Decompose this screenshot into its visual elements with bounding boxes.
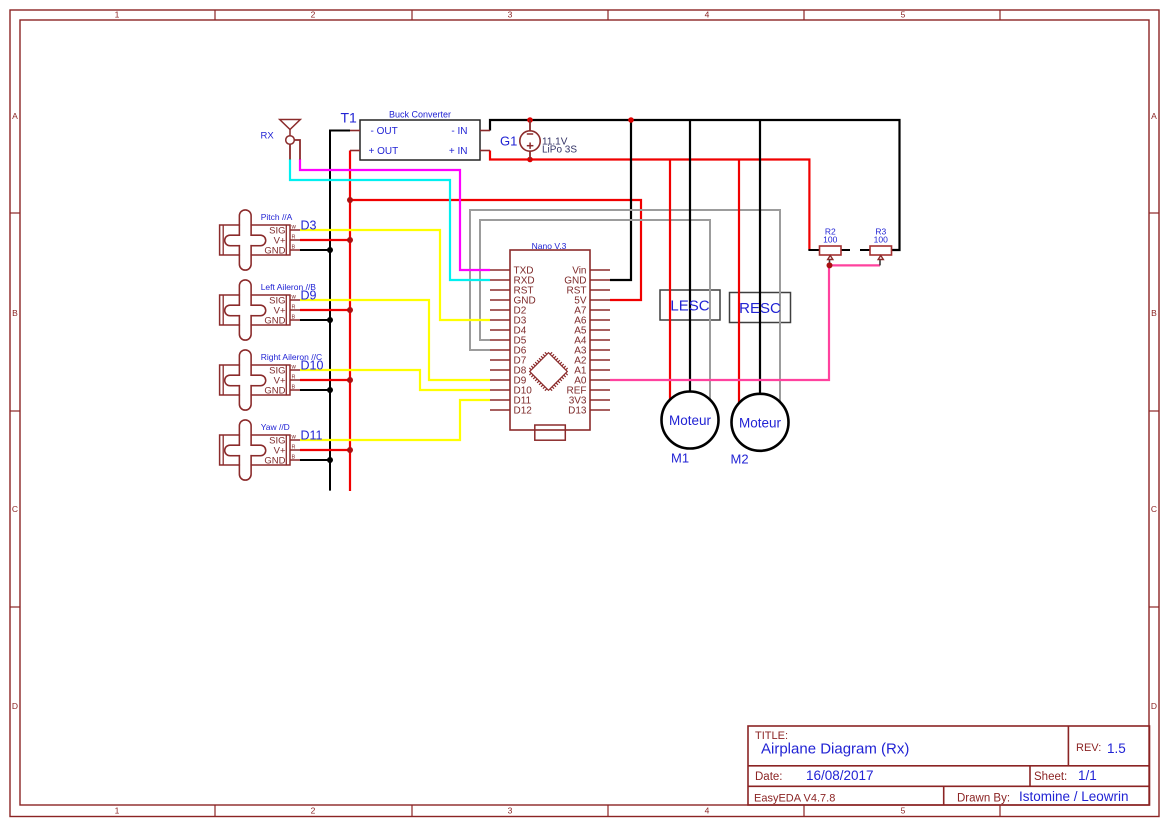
svg-text:A: A xyxy=(1151,111,1157,121)
wire red servo4 V+ stub to bus xyxy=(300,449,350,451)
battery G1 symbol xyxy=(520,120,540,160)
svg-text:Istomine / Leowrin: Istomine / Leowrin xyxy=(1019,789,1129,804)
svg-text:100: 100 xyxy=(874,234,888,244)
svg-text:D: D xyxy=(12,701,18,711)
svg-text:w: w xyxy=(291,365,297,371)
title block DrawnBy cell divider xyxy=(943,786,945,805)
frame row letters left xyxy=(12,111,18,711)
svg-text:B: B xyxy=(292,245,296,251)
svg-text:2: 2 xyxy=(311,806,316,816)
junction dot black bus servo1 GND xyxy=(327,247,333,253)
servo connector 3 Right Aileron //C xyxy=(220,350,300,410)
svg-text:w: w xyxy=(291,435,297,441)
svg-text:Nano V.3: Nano V.3 xyxy=(532,241,567,251)
wire yellow servo2 SIG to nano D9 xyxy=(300,300,490,380)
junction dot battery top on GND rail xyxy=(527,117,533,123)
svg-text:Moteur: Moteur xyxy=(669,413,712,428)
junction dot pink wiper node xyxy=(827,262,833,268)
microcontroller U1 Nano V.3 box xyxy=(510,250,590,430)
potentiometer R3 body xyxy=(870,246,892,260)
wire magenta antenna to nano TXD xyxy=(300,159,490,270)
wire red LESC column to motor M1 xyxy=(669,160,671,401)
svg-text:B: B xyxy=(1151,308,1157,318)
wire cyan antenna to nano RXD xyxy=(290,159,490,280)
motor M1 circle xyxy=(662,392,719,449)
wire black servo1 GND stub to bus xyxy=(300,249,330,251)
wire pink nano A0 to potentiometer wipers xyxy=(610,265,880,380)
wire red servo3 V+ stub to bus xyxy=(300,379,350,381)
svg-text:B: B xyxy=(292,315,296,321)
svg-text:1.5: 1.5 xyxy=(1107,741,1126,756)
junction dot battery bottom on red rail xyxy=(527,157,533,163)
servo connector 4 Yaw //D xyxy=(220,420,300,480)
wire black top GND rail from buck -IN to R3 xyxy=(490,120,900,250)
junction dot GND rail nano branch xyxy=(628,117,634,123)
wire yellow servo4 SIG to nano D11 xyxy=(300,400,490,440)
svg-text:Moteur: Moteur xyxy=(739,416,782,431)
wire black nano GND to top rail xyxy=(610,120,631,280)
wire gray nano D5 to LESC column xyxy=(480,220,710,400)
wire red 5V from bus to nano 5V pin xyxy=(350,200,641,300)
wire black servo2 GND stub to bus xyxy=(300,319,330,321)
frame column numbers bottom xyxy=(115,806,906,816)
frame row letters right xyxy=(1151,111,1157,711)
svg-text:5: 5 xyxy=(901,806,906,816)
svg-text:Pitch //A: Pitch //A xyxy=(261,212,293,222)
microcontroller USB tab xyxy=(535,425,566,440)
svg-text:+ IN: + IN xyxy=(449,146,468,157)
junction dot black bus servo2 GND xyxy=(327,317,333,323)
svg-text:+ OUT: + OUT xyxy=(369,146,399,157)
svg-text:Drawn By:: Drawn By: xyxy=(957,793,1010,805)
svg-text:1: 1 xyxy=(115,10,120,20)
svg-text:B: B xyxy=(292,455,296,461)
microcontroller right pin names xyxy=(564,266,587,417)
svg-text:GND: GND xyxy=(264,385,285,396)
svg-text:D13: D13 xyxy=(568,406,587,417)
svg-text:RX: RX xyxy=(261,131,275,142)
title block divider row2 xyxy=(748,785,1150,787)
svg-text:3: 3 xyxy=(508,806,513,816)
svg-text:RESC: RESC xyxy=(739,300,781,317)
wire black GND bus from buck -OUT down left column xyxy=(330,131,350,491)
frame row ticks right xyxy=(1149,213,1159,607)
svg-text:M2: M2 xyxy=(731,452,749,467)
svg-text:GND: GND xyxy=(264,245,285,256)
wire red servo2 V+ stub to bus xyxy=(300,309,350,311)
svg-text:B: B xyxy=(12,308,18,318)
junction dot black bus servo4 GND xyxy=(327,457,333,463)
title block outline xyxy=(748,726,1150,805)
svg-text:C: C xyxy=(12,504,18,514)
wire black servo3 GND stub to bus xyxy=(300,389,330,391)
frame row ticks left xyxy=(10,213,20,607)
wire black R2 left lead xyxy=(808,249,819,251)
junction dot red bus servo4 V+ xyxy=(347,447,353,453)
svg-text:D: D xyxy=(1151,701,1157,711)
svg-text:R: R xyxy=(292,235,296,241)
svg-text:Date:: Date: xyxy=(755,771,783,783)
svg-text:GND: GND xyxy=(264,315,285,326)
svg-text:D3: D3 xyxy=(301,218,317,232)
svg-text:4: 4 xyxy=(705,806,710,816)
svg-text:Buck Converter: Buck Converter xyxy=(389,110,451,120)
svg-text:D12: D12 xyxy=(514,406,533,417)
servo 1 wire color tags w R B xyxy=(291,225,297,251)
title block Sheet cell divider xyxy=(1029,766,1031,787)
svg-text:- OUT: - OUT xyxy=(371,126,398,137)
svg-text:B: B xyxy=(292,385,296,391)
svg-text:D9: D9 xyxy=(301,288,317,302)
wire gray nano D6 to RESC column xyxy=(470,210,780,403)
potentiometer R2 body xyxy=(820,246,842,260)
svg-text:D11: D11 xyxy=(301,428,323,442)
frame column ticks bottom xyxy=(215,805,1000,817)
wire red battery rail from buck +IN to R2 xyxy=(490,151,809,251)
wire black R3 left lead xyxy=(860,249,870,251)
wire yellow servo1 SIG to nano D3 xyxy=(300,230,490,320)
svg-text:w: w xyxy=(291,295,297,301)
junction dot red bus 5V branch xyxy=(347,197,353,203)
svg-text:EasyEDA V4.7.8: EasyEDA V4.7.8 xyxy=(754,793,835,805)
svg-text:- IN: - IN xyxy=(451,126,467,137)
wire dark R2 wiper stub xyxy=(829,260,831,266)
ESC LESC box xyxy=(660,290,720,320)
servo 4 wire color tags w R B xyxy=(291,435,297,461)
svg-text:2: 2 xyxy=(311,10,316,20)
svg-text:3: 3 xyxy=(508,10,513,20)
svg-text:G1: G1 xyxy=(500,134,517,149)
svg-text:GND: GND xyxy=(264,455,285,466)
servo connector 2 Left Aileron //B xyxy=(220,280,300,340)
wire dark R3 wiper stub xyxy=(879,260,881,266)
svg-text:REV:: REV: xyxy=(1076,742,1101,754)
svg-text:C: C xyxy=(1151,504,1157,514)
svg-text:Airplane Diagram (Rx): Airplane Diagram (Rx) xyxy=(761,741,909,758)
title block divider row1 xyxy=(748,765,1150,767)
wire red servo1 V+ stub to bus xyxy=(300,239,350,241)
frame column ticks top xyxy=(215,10,1000,20)
wire red RESC column to motor M2 xyxy=(738,160,740,403)
svg-text:1: 1 xyxy=(115,806,120,816)
microcontroller chip diamond icon xyxy=(526,349,572,395)
wire red V+ bus from buck +OUT down left column xyxy=(349,151,351,492)
svg-text:R: R xyxy=(292,305,296,311)
svg-text:w: w xyxy=(291,225,297,231)
servo 3 wire color tags w R B xyxy=(291,365,297,391)
svg-text:LiPo 3S: LiPo 3S xyxy=(542,145,577,156)
svg-text:T1: T1 xyxy=(341,110,358,126)
svg-text:M1: M1 xyxy=(671,451,689,466)
svg-text:16/08/2017: 16/08/2017 xyxy=(806,768,874,783)
ESC RESC box xyxy=(730,293,791,323)
frame column numbers top xyxy=(115,10,906,20)
wire yellow servo3 SIG to nano D10 xyxy=(300,370,490,390)
title block REV cell divider xyxy=(1067,726,1069,766)
svg-text:Sheet:: Sheet: xyxy=(1034,771,1067,783)
svg-text:R: R xyxy=(292,375,296,381)
svg-text:LESC: LESC xyxy=(670,298,709,315)
servo 2 wire color tags w R B xyxy=(291,295,297,321)
buck converter U? box xyxy=(360,120,480,160)
antenna RX symbol xyxy=(280,120,301,160)
buck converter pin stubs xyxy=(350,131,490,151)
junction dot red bus servo2 V+ xyxy=(347,307,353,313)
wire black RESC column top rail to motor M2 xyxy=(759,120,761,395)
junction dot black bus servo3 GND xyxy=(327,387,333,393)
microcontroller right pin stubs xyxy=(590,270,610,410)
svg-text:1/1: 1/1 xyxy=(1078,768,1097,783)
wire black R2 right lead xyxy=(841,249,850,251)
junction dot red bus servo1 V+ xyxy=(347,237,353,243)
junction dot red bus servo3 V+ xyxy=(347,377,353,383)
servo connector 1 Pitch //A xyxy=(220,210,300,270)
svg-text:A: A xyxy=(12,111,18,121)
wire black LESC column top rail to motor M1 xyxy=(689,120,691,393)
microcontroller left pin stubs xyxy=(490,270,510,410)
wire black servo4 GND stub to bus xyxy=(300,459,330,461)
svg-text:Yaw //D: Yaw //D xyxy=(261,422,290,432)
svg-text:R: R xyxy=(292,445,296,451)
svg-text:D10: D10 xyxy=(301,358,324,372)
svg-text:100: 100 xyxy=(823,234,837,244)
microcontroller left pin names xyxy=(514,266,536,417)
motor M2 circle xyxy=(732,394,789,451)
svg-text:5: 5 xyxy=(901,10,906,20)
svg-text:4: 4 xyxy=(705,10,710,20)
